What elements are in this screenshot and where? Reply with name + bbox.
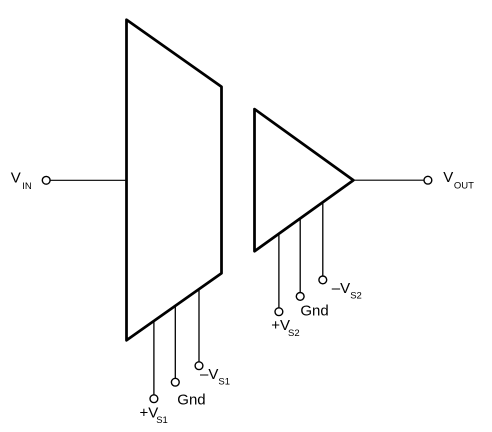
svg-text:S2: S2 [350,290,362,301]
svg-text:OUT: OUT [454,180,474,191]
pin terminal +VS1 [150,395,158,403]
wire A2 pin Gnd [299,218,301,293]
amplifier A1 (trapezoid gain block) [127,20,222,341]
wire A1 pin -VS1 [198,289,200,362]
wire A2 pin -VS2 [322,202,324,277]
svg-text:Gnd: Gnd [300,303,328,320]
svg-text:V: V [443,169,453,186]
svg-text:–V: –V [332,280,350,297]
wire VIN terminal to amplifier A1 input [50,179,126,181]
amplifier A2 (triangle buffer) [255,109,354,251]
pin terminal Gnd (A1) [171,378,179,386]
node VOUT output terminal [424,176,432,184]
svg-text:S2: S2 [288,328,300,339]
svg-text:S1: S1 [156,415,168,426]
wire A1 pin Gnd [174,305,176,378]
svg-text:S1: S1 [218,377,230,388]
svg-text:Gnd: Gnd [177,391,205,408]
pin terminal -VS1 [195,362,203,370]
node VIN input terminal [42,176,50,184]
pin terminal Gnd (A2) [296,293,304,301]
pin terminal -VS2 [319,276,327,284]
wire A1 pin +VS1 [153,321,155,395]
wire A2 output to VOUT terminal [353,179,424,181]
svg-text:V: V [11,170,21,187]
svg-text:IN: IN [22,181,32,192]
pin terminal +VS2 [275,308,283,316]
svg-text:–V: –V [200,366,218,383]
wire A2 pin +VS2 [278,234,280,308]
